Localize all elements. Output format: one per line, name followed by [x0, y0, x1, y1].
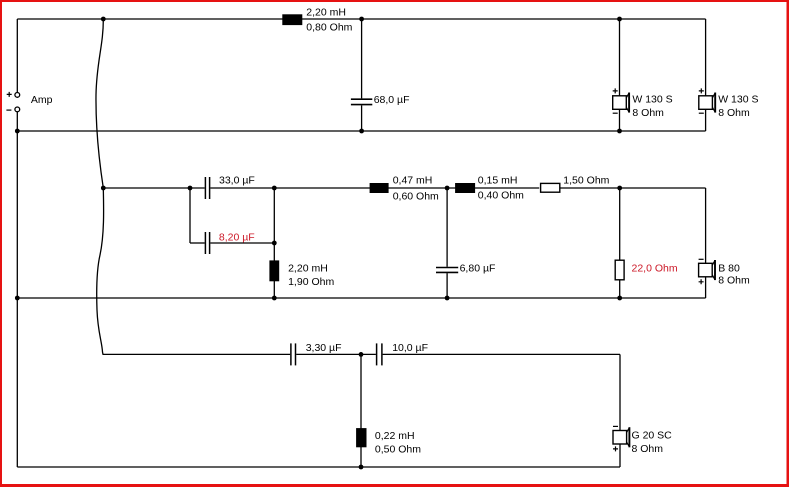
wire: C3 left lead [190, 242, 205, 244]
wire: speaker SP3 column [705, 188, 707, 298]
junction mid branch / C3 drop [188, 186, 193, 191]
resistor R1 1,50 Ohm [541, 183, 560, 192]
speaker SP2 W 130 S [699, 88, 715, 113]
wire: R2 shunt column [619, 188, 621, 298]
junction mid branch / curved link [101, 186, 106, 191]
svg-text:W 130 S: W 130 S [632, 94, 672, 106]
svg-text:22,0 Ohm: 22,0 Ohm [632, 263, 678, 275]
junction bottom return / L5 column [359, 465, 364, 470]
wire: speaker SP4 column [619, 354, 621, 467]
capacitor C6 10,0 uF plates [377, 343, 382, 365]
svg-text:10,0 µF: 10,0 µF [392, 342, 428, 354]
wire: curved link top rail to midrange branch [96, 19, 103, 188]
wire: curved link midrange branch to tweeter branch [97, 188, 104, 354]
svg-text:1,50 Ohm: 1,50 Ohm [563, 175, 609, 187]
junction branch1 return / C1 [359, 129, 364, 134]
svg-text:3,30 µF: 3,30 µF [306, 342, 342, 354]
amp - terminal [15, 107, 20, 112]
svg-text:0,47 mH: 0,47 mH [393, 175, 433, 187]
junction mid return / left rail [15, 296, 20, 301]
junction top rail / SP1 [617, 17, 622, 22]
junction mid return / L4 column [272, 296, 277, 301]
wire: speaker SP1 column [619, 19, 621, 131]
speaker SP1 W 130 S [613, 88, 629, 113]
svg-text:8 Ohm: 8 Ohm [718, 275, 750, 287]
wire: C1 bottom lead [361, 105, 363, 131]
wire: bottom branch horizontal left of C5 [103, 353, 291, 355]
inductor L2 0,47 mH / 0,60 Ohm [370, 183, 389, 193]
svg-text:8,20 µF: 8,20 µF [219, 231, 255, 243]
wire: C1 top lead [361, 19, 363, 98]
capacitor C1 68,0 uF plates [351, 99, 372, 104]
speaker SP4 G 20 SC [613, 426, 629, 451]
inductor L4 2,20 mH / 1,90 Ohm (vertical) [269, 260, 279, 281]
inductor L3 0,15 mH / 0,40 Ohm [455, 183, 475, 193]
wire: mid branch horizontal C2 to R1 [210, 187, 539, 189]
svg-text:8 Ohm: 8 Ohm [632, 107, 664, 119]
wire: mid branch return horizontal [17, 297, 705, 299]
wire: bottom branch horizontal C6 to speaker column [383, 353, 620, 355]
junction mid return / C4 column [445, 296, 450, 301]
junction mid branch / L4 column [272, 186, 277, 191]
junction mid branch / R2 column [617, 186, 622, 191]
capacitor C3 8,20 uF plates [205, 232, 209, 254]
wire: mid branch horizontal left of C2 [103, 187, 204, 189]
amp + sign [7, 92, 12, 97]
wire: left rail below - terminal down to bottom return [16, 112, 18, 467]
wire: C4 bottom lead [446, 273, 448, 298]
wire: bottom branch return horizontal [17, 466, 620, 468]
wire: branch1 return horizontal [17, 130, 705, 132]
svg-text:8 Ohm: 8 Ohm [718, 107, 750, 119]
junction C3 / L4 column [272, 241, 277, 246]
junction top rail / C1 [359, 17, 364, 22]
svg-text:8 Ohm: 8 Ohm [632, 443, 664, 455]
speaker SP3 B 80 [699, 259, 715, 284]
amp - sign [6, 109, 11, 111]
resistor R2 22,0 Ohm (vertical) [615, 260, 624, 280]
svg-text:G 20 SC: G 20 SC [632, 430, 673, 442]
inductor L1 2,20 mH / 0,80 Ohm [282, 14, 302, 25]
svg-text:0,15 mH: 0,15 mH [478, 175, 518, 187]
svg-text:2,20 mH: 2,20 mH [288, 263, 328, 275]
junction bottom branch / L5 column [359, 352, 364, 357]
wire: speaker SP2 column [705, 19, 707, 131]
svg-text:0,80 Ohm: 0,80 Ohm [306, 21, 352, 33]
wire: C3 right lead [210, 242, 274, 244]
junction branch1 return / SP1 [617, 129, 622, 134]
junction branch1 return / left rail [15, 129, 20, 134]
svg-text:2,20 mH: 2,20 mH [306, 7, 346, 19]
wire: mid branch horizontal R1 to right column [560, 187, 706, 189]
svg-text:68,0 µF: 68,0 µF [374, 94, 410, 106]
wire: C4 top lead [446, 188, 448, 267]
inductor L5 0,22 mH / 0,50 Ohm (vertical) [356, 428, 366, 447]
svg-text:1,90 Ohm: 1,90 Ohm [288, 276, 334, 288]
svg-text:Amp: Amp [31, 94, 53, 106]
svg-text:0,60 Ohm: 0,60 Ohm [393, 191, 439, 203]
junction mid return / R2 column [617, 296, 622, 301]
svg-text:W 130 S: W 130 S [718, 94, 758, 106]
capacitor C5 3,30 uF plates [291, 343, 296, 365]
svg-text:0,40 Ohm: 0,40 Ohm [478, 190, 524, 202]
capacitor C4 6,80 uF plates [436, 268, 458, 273]
svg-text:0,22 mH: 0,22 mH [375, 430, 415, 442]
svg-text:33,0 µF: 33,0 µF [219, 175, 255, 187]
wire: L4 shunt column [273, 188, 275, 298]
wire: top rail horizontal [17, 18, 705, 20]
wire: C3 branch drop at x=190 [189, 188, 191, 243]
wire: L5 shunt column [360, 354, 362, 467]
junction top rail / curved link [101, 17, 106, 22]
svg-text:B 80: B 80 [718, 262, 740, 274]
amp + terminal [15, 93, 20, 98]
wire: bottom branch horizontal C5 to C6 [296, 353, 376, 355]
capacitor C2 33,0 uF plates [205, 177, 209, 199]
wire: left rail top (to + terminal) [16, 19, 18, 93]
svg-text:6,80 µF: 6,80 µF [460, 263, 496, 275]
junction mid branch / C4 column [445, 186, 450, 191]
svg-text:0,50 Ohm: 0,50 Ohm [375, 444, 421, 456]
